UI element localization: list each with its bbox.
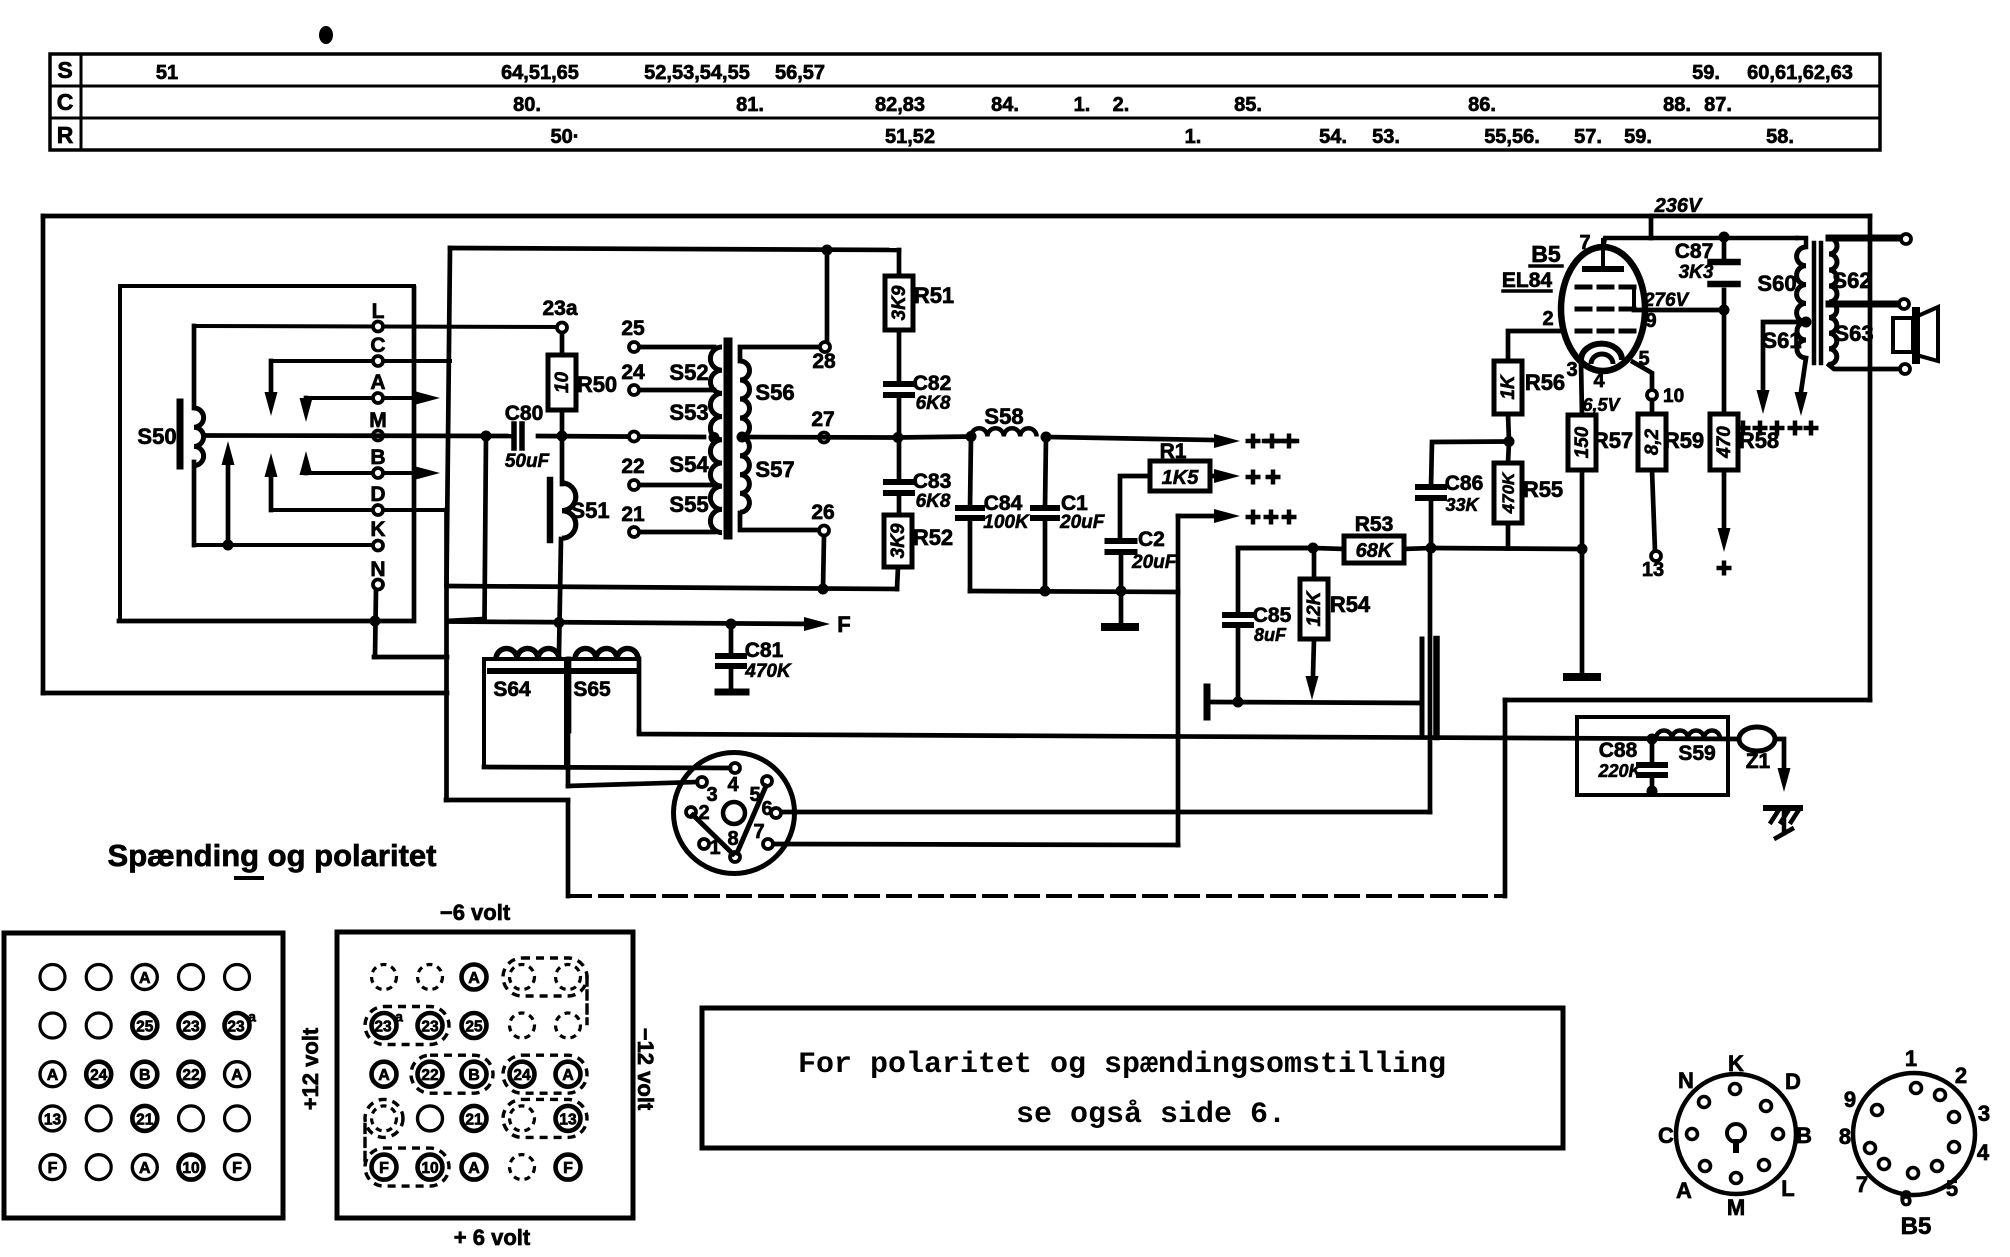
resistor R55 <box>1508 442 1509 464</box>
svg-text:F: F <box>379 1160 389 1177</box>
R55 bottom <box>1506 523 1511 549</box>
wire S57 bottom to 26 <box>740 513 818 530</box>
svg-text:S61: S61 <box>1762 328 1801 353</box>
C81 lower lead <box>729 666 734 690</box>
svg-text:85.: 85. <box>1234 94 1262 116</box>
capacitor C86 wire <box>1431 442 1509 488</box>
resistor R59 <box>1650 400 1655 414</box>
capacitor C88 <box>1650 739 1655 765</box>
pin 8 <box>730 852 740 862</box>
terminal 24 <box>634 388 714 393</box>
bus pin4 y=767 <box>484 767 730 768</box>
C88 bottom <box>1650 775 1655 791</box>
connector grid left box <box>4 933 283 1218</box>
svg-text:A: A <box>370 371 385 394</box>
resistor R51 <box>885 276 913 330</box>
svg-text:20uF: 20uF <box>1059 512 1106 533</box>
pin 1 <box>699 839 709 849</box>
svg-text:S59: S59 <box>1678 742 1715 765</box>
S63 bottom tap <box>1829 365 1898 369</box>
svg-text:R56: R56 <box>1525 370 1565 395</box>
wire R50 bottom <box>560 410 565 436</box>
svg-text:A: A <box>139 1160 151 1177</box>
svg-text:10: 10 <box>182 1160 199 1177</box>
Z1 out wire <box>1775 739 1784 768</box>
S50 core bar <box>177 402 184 466</box>
bus N y=621 <box>119 619 411 624</box>
bus pin7 y=845 <box>775 844 1178 845</box>
bus y=548 right <box>1431 548 1582 549</box>
svg-text:a: a <box>248 1009 256 1025</box>
svg-text:S57: S57 <box>755 457 794 482</box>
svg-text:8,2: 8,2 <box>1642 428 1663 455</box>
svg-text:81.: 81. <box>736 94 764 116</box>
svg-text:A: A <box>468 970 480 987</box>
svg-text:20uF: 20uF <box>1131 552 1178 573</box>
svg-text:S50: S50 <box>137 424 176 449</box>
svg-text:23: 23 <box>374 1019 392 1036</box>
wire 26 down <box>823 536 824 589</box>
capacitor C87 top <box>1722 237 1727 262</box>
bus top y=248 <box>450 248 899 250</box>
svg-text:276V: 276V <box>1643 290 1690 311</box>
connector grid right box <box>337 932 633 1218</box>
coil S62 <box>1829 238 1837 302</box>
svg-text:13: 13 <box>1642 559 1664 581</box>
svg-text:S: S <box>57 57 72 83</box>
bus C85 y=702 <box>1211 702 1421 703</box>
svg-text:R: R <box>57 122 74 148</box>
terminal M mid <box>629 432 639 442</box>
svg-text:25: 25 <box>621 317 645 340</box>
secondary coil S56 <box>740 361 750 437</box>
svg-text:22: 22 <box>421 1067 438 1084</box>
svg-text:10: 10 <box>552 372 573 394</box>
resistor R1 box <box>1150 461 1210 491</box>
wire C83-R52 <box>897 493 902 515</box>
svg-text:6K8: 6K8 <box>916 393 951 414</box>
svg-text:50uF: 50uF <box>505 451 551 472</box>
contact L <box>194 326 562 327</box>
pin 3 <box>697 777 707 787</box>
wire S51 down <box>559 539 561 653</box>
primary coil S52-S55 <box>710 347 722 533</box>
plus row transformer <box>1736 421 1751 436</box>
cathode arc <box>1581 344 1622 360</box>
svg-text:8: 8 <box>1839 1124 1851 1149</box>
svg-text:24: 24 <box>621 361 645 384</box>
grid dashes row1 <box>1577 285 1590 290</box>
ink blob <box>319 26 333 44</box>
svg-text:A: A <box>47 1067 59 1084</box>
svg-text:3: 3 <box>1978 1101 1990 1126</box>
contact M <box>373 431 383 441</box>
svg-text:C86: C86 <box>1445 472 1484 495</box>
svg-text:1.: 1. <box>1185 126 1202 148</box>
svg-text:A: A <box>562 1067 574 1084</box>
S61 bottom lead <box>1801 358 1806 392</box>
svg-text:56,57: 56,57 <box>775 62 825 84</box>
junction M-S64 drop <box>481 431 492 442</box>
coil S61 <box>1797 322 1806 358</box>
svg-text:A: A <box>231 1067 243 1084</box>
svg-text:B: B <box>139 1067 151 1084</box>
junction S51-F <box>554 617 565 628</box>
tall arrow up from K wire <box>226 465 231 545</box>
svg-text:60,61,62,63: 60,61,62,63 <box>1747 62 1853 84</box>
pin7 wire <box>1603 238 1797 248</box>
arrow A down <box>304 398 309 404</box>
R56 bottom <box>1508 414 1509 442</box>
svg-text:+ 6 volt: + 6 volt <box>454 1225 531 1250</box>
wire R52 bottom <box>897 567 898 589</box>
svg-text:−6 volt: −6 volt <box>440 900 511 925</box>
svg-text:5: 5 <box>1946 1176 1958 1201</box>
svg-text:5: 5 <box>1638 348 1649 370</box>
grid dashes row2 <box>1577 307 1590 312</box>
svg-text:Spænding og polaritet: Spænding og polaritet <box>108 838 437 873</box>
R1 left lead <box>1120 476 1150 541</box>
arrow D up <box>269 474 274 510</box>
capacitor C85 top lead <box>1238 548 1313 615</box>
capacitor C84 lead <box>970 437 971 509</box>
svg-text:2: 2 <box>1955 1063 1967 1088</box>
terminal 27 <box>819 433 829 443</box>
ground below C81 <box>718 689 746 696</box>
screen link <box>1632 287 1636 309</box>
bus pin3 y=786 <box>568 782 697 786</box>
frame right edge <box>1868 216 1873 700</box>
choke box S64 <box>484 659 566 767</box>
bus D y=587 <box>447 586 897 589</box>
svg-text:6K8: 6K8 <box>916 491 951 512</box>
resistor R56 top wire pin2 <box>1508 331 1562 361</box>
wire x=1430 through screen <box>1428 548 1433 812</box>
transformer core bar <box>724 342 733 535</box>
svg-text:57.: 57. <box>1574 126 1602 148</box>
svg-text:C82: C82 <box>913 372 952 395</box>
pin9 wire <box>1634 308 1724 313</box>
svg-text:F: F <box>837 612 850 637</box>
resistor R57 <box>1568 415 1596 470</box>
junction S58 right <box>1041 432 1052 443</box>
C84 lower lead <box>968 518 973 591</box>
terminal 10 <box>1647 390 1657 400</box>
svg-text:21: 21 <box>621 503 645 526</box>
svg-text:470K: 470K <box>744 661 792 682</box>
svg-text:55,56.: 55,56. <box>1484 126 1540 148</box>
svg-text:D: D <box>370 483 385 506</box>
wire 28 up <box>825 250 830 341</box>
coil S60 <box>1797 247 1806 322</box>
octal center key <box>1727 1124 1745 1142</box>
wire R51 top <box>897 250 902 276</box>
frame left edge <box>41 216 46 693</box>
svg-text:2.: 2. <box>1113 94 1130 116</box>
shield box C88/S59 <box>1577 717 1728 795</box>
svg-text:R55: R55 <box>1523 477 1563 502</box>
svg-text:4: 4 <box>1977 1140 1990 1165</box>
svg-text:C: C <box>370 334 385 357</box>
svg-text:10: 10 <box>421 1160 438 1177</box>
svg-text:K: K <box>1728 1051 1744 1076</box>
svg-text:24: 24 <box>513 1067 531 1084</box>
choke box S65 <box>567 659 572 731</box>
svg-text:10: 10 <box>1663 386 1684 407</box>
C86 lower lead <box>1429 498 1434 548</box>
svg-text:se også side 6.: se også side 6. <box>1016 1098 1286 1132</box>
wire M to S51 <box>560 436 565 484</box>
heater arc <box>1591 354 1613 364</box>
svg-text:6,5V: 6,5V <box>1582 395 1621 415</box>
pin 7 <box>763 839 773 849</box>
wire S64div x=568 <box>566 659 571 786</box>
pin 6 <box>771 808 781 818</box>
svg-text:−12 volt: −12 volt <box>633 1028 658 1111</box>
svg-text:50·: 50· <box>551 126 580 148</box>
svg-text:2: 2 <box>1542 308 1553 330</box>
svg-text:1K: 1K <box>1498 374 1519 400</box>
screen bars <box>1420 639 1425 737</box>
svg-text:M: M <box>1727 1195 1745 1220</box>
svg-text:S53: S53 <box>669 400 708 425</box>
arrow row3 <box>1178 514 1214 519</box>
coil S63 <box>1829 302 1837 364</box>
svg-text:150: 150 <box>1572 426 1593 458</box>
resistor R56 <box>1494 361 1522 414</box>
pin5 lead <box>1633 362 1652 390</box>
236V stub <box>1649 216 1654 238</box>
wire M drop x=486 <box>485 436 487 619</box>
svg-text:L: L <box>1781 1176 1794 1201</box>
capacitor C84 <box>958 505 982 511</box>
wire N-to-vert y=657 <box>374 655 447 660</box>
junction R53 right <box>1426 543 1437 554</box>
arrow B out <box>414 466 440 480</box>
resistor R52 <box>884 515 912 567</box>
svg-text:13: 13 <box>44 1111 62 1128</box>
wire into S60 <box>1797 238 1806 247</box>
svg-text:22: 22 <box>182 1067 199 1084</box>
svg-text:3K9: 3K9 <box>889 285 910 320</box>
svg-text:C88: C88 <box>1599 739 1638 762</box>
wire R51-C82 <box>897 330 902 381</box>
svg-text:23: 23 <box>182 1019 200 1036</box>
svg-text:7: 7 <box>753 821 764 843</box>
svg-text:33K: 33K <box>1445 495 1480 515</box>
resistor R58 <box>1710 414 1738 470</box>
svg-text:R57: R57 <box>1593 428 1633 453</box>
chassis symbol <box>1766 805 1800 811</box>
svg-text:82,83: 82,83 <box>875 94 925 116</box>
svg-text:87.: 87. <box>1704 94 1732 116</box>
svg-text:C: C <box>1658 1123 1674 1148</box>
arrow C down <box>269 361 274 395</box>
svg-text:28: 28 <box>812 350 836 373</box>
svg-text:23a: 23a <box>542 297 577 320</box>
dashed linkage wire <box>568 894 1505 898</box>
capacitor C1 <box>1033 505 1057 511</box>
svg-text:6: 6 <box>1900 1186 1912 1211</box>
link pin8-pin5 <box>737 786 766 853</box>
svg-text:F: F <box>232 1160 242 1177</box>
frame bottom-left wire <box>43 691 447 696</box>
coil S59 <box>1656 731 1720 739</box>
svg-text:Z1: Z1 <box>1746 750 1771 773</box>
svg-text:L: L <box>372 300 385 323</box>
S62 top tap <box>1829 235 1899 242</box>
capacitor C83 <box>886 479 912 485</box>
pin 2 <box>686 807 696 817</box>
junction K-arrow <box>223 540 234 551</box>
right grid dashed pills <box>503 958 587 996</box>
parts-location table (S/C/R rows) <box>50 54 1880 150</box>
grid dashes row3 <box>1577 329 1590 334</box>
svg-text:B: B <box>468 1067 480 1084</box>
svg-text:B5: B5 <box>1901 1213 1932 1240</box>
note box <box>702 1008 1563 1148</box>
bus 27 y=437 <box>742 435 898 440</box>
svg-text:236V: 236V <box>1654 195 1703 217</box>
svg-text:3K3: 3K3 <box>1679 262 1714 283</box>
wire C82-27 <box>897 395 902 437</box>
ground below R57 <box>1567 673 1597 681</box>
R57 lower lead <box>1580 470 1585 549</box>
link pin2-pin8 <box>693 815 733 854</box>
svg-text:4: 4 <box>727 774 739 796</box>
arrow Z1 down <box>1778 768 1791 792</box>
resistor R50 <box>560 333 565 355</box>
svg-text:220K: 220K <box>1597 761 1643 781</box>
svg-text:26: 26 <box>811 501 834 524</box>
R53 leads <box>1313 548 1344 549</box>
svg-text:27: 27 <box>811 408 834 431</box>
wire N down <box>375 590 376 657</box>
svg-text:K: K <box>370 518 385 541</box>
svg-text:R52: R52 <box>913 525 953 550</box>
right grid L pill row4-row5 <box>365 1099 403 1137</box>
svg-text:23: 23 <box>227 1019 245 1036</box>
R58 bottom arrow <box>1722 470 1727 528</box>
svg-text:C80: C80 <box>505 402 544 425</box>
contact C <box>271 359 450 363</box>
capacitor C1 lead <box>1045 437 1046 508</box>
R59 lower lead <box>1652 470 1655 551</box>
arrow B up <box>304 467 309 473</box>
vertical x=1178 <box>1176 516 1181 845</box>
svg-text:R51: R51 <box>914 283 954 308</box>
contact D <box>271 508 446 512</box>
bus S59 y=737 <box>639 731 1740 739</box>
capacitor C81 <box>718 653 744 659</box>
svg-text:21: 21 <box>136 1111 154 1128</box>
contact B <box>306 471 430 475</box>
socket diagram octal <box>1676 1074 1796 1194</box>
terminal 25 <box>634 345 714 350</box>
capacitor C86 <box>1418 484 1444 490</box>
svg-text:A: A <box>468 1160 480 1177</box>
coil S65 <box>575 649 638 660</box>
svg-text:59.: 59. <box>1692 62 1720 84</box>
socket center pin <box>723 802 745 824</box>
pin 4 <box>730 763 740 773</box>
svg-text:84.: 84. <box>991 94 1019 116</box>
svg-text:C81: C81 <box>745 639 784 662</box>
svg-text:B: B <box>370 446 385 469</box>
junction R57 bottom <box>1577 544 1588 555</box>
svg-text:9: 9 <box>1844 1087 1856 1112</box>
svg-text:470: 470 <box>1714 426 1735 459</box>
svg-text:S64: S64 <box>493 678 531 701</box>
wire L-K link x=194 <box>192 326 197 408</box>
svg-text:1.: 1. <box>1074 94 1091 116</box>
junction C88 <box>1647 734 1658 745</box>
svg-text:S62: S62 <box>1832 268 1871 293</box>
riser x=1505 <box>1503 700 1508 896</box>
svg-text:7: 7 <box>1579 232 1590 254</box>
svg-text:8: 8 <box>727 828 738 850</box>
S50 box right edge lower <box>412 288 417 621</box>
left grid circles <box>40 965 65 990</box>
junction S58 left <box>966 431 977 442</box>
svg-text:R54: R54 <box>1330 592 1371 617</box>
speaker <box>1893 318 1913 352</box>
svg-text:S52: S52 <box>669 360 708 385</box>
svg-text:58.: 58. <box>1766 126 1794 148</box>
anode bar <box>1585 266 1621 272</box>
arrow S61 down <box>1795 392 1808 416</box>
Z1 lamp <box>1739 727 1775 751</box>
resistor R53 box <box>1344 536 1404 563</box>
ground bus y=591 <box>970 591 1178 592</box>
C1 lower lead <box>1043 518 1048 591</box>
svg-text:S56: S56 <box>755 380 794 405</box>
svg-text:F: F <box>563 1160 573 1177</box>
svg-text:7: 7 <box>1856 1172 1868 1197</box>
R57 lead down <box>1580 549 1585 672</box>
resistor R54 <box>1312 548 1317 579</box>
svg-text:470K: 470K <box>1499 471 1518 514</box>
svg-text:+12 volt: +12 volt <box>298 1027 323 1110</box>
wire x=568 down to dashed <box>566 801 571 896</box>
svg-text:52,53,54,55: 52,53,54,55 <box>644 62 750 84</box>
svg-text:22: 22 <box>621 455 644 478</box>
ground below C2 <box>1105 623 1135 631</box>
svg-text:80.: 80. <box>513 94 541 116</box>
junction 27 line <box>893 432 904 443</box>
coil S64 <box>496 649 559 660</box>
capacitor C80 <box>511 424 517 448</box>
socket plug circle <box>674 753 795 874</box>
capacitor C2 <box>1108 538 1135 544</box>
switch S50 box <box>120 286 414 621</box>
svg-text:C87: C87 <box>1675 240 1714 263</box>
svg-text:B5: B5 <box>1531 241 1561 267</box>
arrow A out <box>414 391 440 405</box>
svg-text:C: C <box>57 89 74 115</box>
svg-text:R59: R59 <box>1664 428 1704 453</box>
cathode lead <box>1581 362 1582 415</box>
terminal 22 <box>634 483 714 488</box>
svg-text:C85: C85 <box>1253 604 1292 627</box>
core bar S64/S65 <box>490 668 634 674</box>
svg-text:S63: S63 <box>1834 321 1873 346</box>
svg-text:3K9: 3K9 <box>888 523 909 558</box>
junction C81-F <box>726 619 737 630</box>
svg-text:8uF: 8uF <box>1254 625 1287 645</box>
svg-text:12K: 12K <box>1304 590 1325 626</box>
S60-S61 tap <box>1801 317 1812 328</box>
